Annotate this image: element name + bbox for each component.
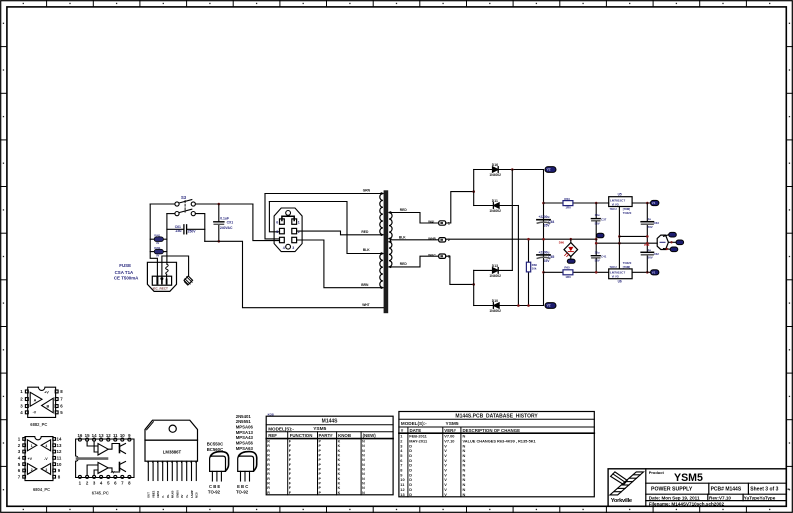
net label +V <box>545 167 556 173</box>
capacitor C61 <box>167 228 183 230</box>
transformer secondary winding 1 <box>389 213 392 239</box>
svg-text:78CU: 78CU <box>610 207 617 211</box>
svg-text:N: N <box>362 468 365 472</box>
svg-text:R: R <box>267 477 270 481</box>
svg-text:R: R <box>267 449 270 453</box>
wire GRN to selector pin 4 <box>265 194 279 239</box>
package 6804_PC <box>23 437 56 481</box>
svg-text:K: K <box>338 440 341 444</box>
svg-text:U5: U5 <box>618 193 622 197</box>
svg-text:250V: 250V <box>188 229 197 233</box>
svg-text:[79M]: [79M] <box>623 265 630 269</box>
svg-text:N: N <box>362 454 365 458</box>
junction <box>542 202 545 205</box>
wire top to BLK feed <box>269 202 380 254</box>
svg-text:WAC: WAC <box>428 253 436 257</box>
net label out3 <box>670 247 678 252</box>
wire D16 row <box>474 169 544 171</box>
wire connector leads <box>664 235 669 237</box>
svg-text:V2: V2 <box>547 168 551 172</box>
svg-text:YSM5: YSM5 <box>313 426 326 432</box>
svg-text:12: 12 <box>57 449 62 454</box>
svg-text:+V: +V <box>44 391 49 395</box>
junction <box>595 202 598 205</box>
svg-text:16: 16 <box>77 433 82 438</box>
svg-text:C41: C41 <box>601 255 607 259</box>
svg-text:R: R <box>267 440 270 444</box>
svg-text:DATE: DATE <box>410 428 422 433</box>
svg-text:Filename: M144SV710sch.sch2002: Filename: M144SV710sch.sch2002 <box>649 502 725 507</box>
svg-text:K: K <box>338 444 341 448</box>
varistor RV61 <box>150 238 155 240</box>
svg-text:LM3886T: LM3886T <box>163 449 182 454</box>
svg-text:U6: U6 <box>618 279 622 283</box>
connector W6 pin 1 <box>439 221 446 225</box>
net label -15V <box>651 270 659 275</box>
wire N down to IEC <box>166 214 168 265</box>
svg-text:R: R <box>267 482 270 486</box>
svg-text:Sheet 3 of 3: Sheet 3 of 3 <box>750 486 778 492</box>
diode D13 <box>492 268 498 274</box>
svg-text:Rev:V7.10: Rev:V7.10 <box>709 496 731 501</box>
svg-text:N: N <box>362 491 365 495</box>
svg-text:1u: 1u <box>648 217 652 221</box>
svg-text:CE T500mA: CE T500mA <box>114 275 139 280</box>
wire bridge cross vertical 2 <box>517 206 519 306</box>
svg-text:TO-92: TO-92 <box>236 490 249 495</box>
svg-text:N: N <box>362 449 365 453</box>
earth wire <box>162 256 189 278</box>
svg-text:N: N <box>362 472 365 476</box>
package 6745_PC <box>76 438 134 478</box>
svg-text:K: K <box>338 477 341 481</box>
svg-text:R65: R65 <box>564 266 570 270</box>
svg-text:9V: 9V <box>156 242 159 245</box>
svg-text:LM7815CT: LM7815CT <box>610 198 625 202</box>
switch S3 <box>175 200 196 216</box>
wire pin3 to bridge <box>446 256 474 284</box>
svg-text:R: R <box>267 486 270 490</box>
svg-text:LM7915CT: LM7915CT <box>610 271 625 275</box>
svg-text:R: R <box>267 472 270 476</box>
svg-text:YSM5: YSM5 <box>446 421 459 427</box>
svg-text:3: 3 <box>45 468 47 472</box>
svg-text:4: 4 <box>45 444 47 448</box>
svg-text:VI VO: VI VO <box>612 203 619 207</box>
svg-text:K: K <box>338 458 341 462</box>
wire L from IEC to switch <box>150 203 175 205</box>
net label 0V <box>597 233 604 238</box>
transformer primary winding 1 <box>380 194 383 235</box>
Yorkville logo <box>610 472 644 495</box>
svg-text:TO220: TO220 <box>623 211 632 215</box>
svg-text:WHB: WHB <box>428 237 436 241</box>
svg-text:C37: C37 <box>601 217 607 221</box>
svg-text:R: R <box>267 491 270 495</box>
svg-text:V-: V- <box>161 495 165 498</box>
svg-text:R: R <box>267 444 270 448</box>
wire D10 row <box>474 305 544 307</box>
svg-text:K: K <box>338 449 341 453</box>
svg-text:D13: D13 <box>492 264 498 268</box>
junction <box>472 190 475 193</box>
package TO-92 2N5401 group <box>236 414 254 451</box>
svg-text:1N4002: 1N4002 <box>489 309 501 313</box>
svg-text:PCB# M144S: PCB# M144S <box>711 486 742 492</box>
package 6882_PC <box>25 387 58 417</box>
svg-text:B: B <box>47 405 50 409</box>
wire U6 output <box>632 271 650 273</box>
svg-text:1N4002: 1N4002 <box>489 274 501 278</box>
net label -V <box>545 303 556 309</box>
svg-text:FUSE: FUSE <box>119 263 131 268</box>
svg-text:MU60: MU60 <box>171 490 175 498</box>
svg-text:MPSA06: MPSA06 <box>236 424 254 429</box>
svg-text:.15u: .15u <box>175 229 182 233</box>
svg-text:DESCRIPTION OF CHANGE: DESCRIPTION OF CHANGE <box>463 428 521 433</box>
svg-text:RV62: RV62 <box>154 247 161 250</box>
svg-text:TO220: TO220 <box>623 261 632 265</box>
net label +15V <box>651 200 659 205</box>
transformer primary winding 2 <box>380 254 383 288</box>
svg-text:BLK: BLK <box>399 235 406 239</box>
svg-text:35V: 35V <box>544 259 551 263</box>
svg-text:(NEW): (NEW) <box>363 433 377 438</box>
svg-text:9V: 9V <box>180 494 184 498</box>
package LM3886T <box>145 420 198 461</box>
wire bridge left verticals <box>473 170 475 206</box>
svg-text:D11: D11 <box>492 199 498 203</box>
svg-text:2: 2 <box>31 468 33 472</box>
svg-text:N: N <box>362 444 365 448</box>
wire switch bottom pole right <box>195 214 204 242</box>
svg-text:240VAC: 240VAC <box>220 226 233 230</box>
LED D60 <box>570 238 573 241</box>
svg-text:-V: -V <box>33 411 37 415</box>
junction <box>511 168 514 171</box>
svg-text:1R0: 1R0 <box>565 206 571 210</box>
diode D11 <box>493 203 499 209</box>
svg-text:N: N <box>362 440 365 444</box>
svg-text:CB50: CB50 <box>156 490 160 498</box>
svg-text:1N4002: 1N4002 <box>489 209 501 213</box>
svg-text:MPSA56: MPSA56 <box>236 440 254 445</box>
wire U5 output <box>632 202 650 204</box>
wire WHT <box>205 241 386 307</box>
svg-text:-V: -V <box>44 457 48 461</box>
svg-text:N: N <box>463 492 466 497</box>
svg-text:D: D <box>409 492 412 497</box>
svg-text:S3: S3 <box>181 195 187 200</box>
svg-text:D60: D60 <box>559 241 565 245</box>
capacitor C41 <box>595 239 597 255</box>
svg-text:GND0: GND0 <box>175 490 179 498</box>
svg-text:PART#: PART# <box>319 433 334 438</box>
svg-text:K: K <box>338 491 341 495</box>
svg-text:POWER SUPPLY: POWER SUPPLY <box>651 486 693 492</box>
diode D10 <box>493 303 499 309</box>
wire D13 row <box>474 269 513 271</box>
svg-text:WAL: WAL <box>428 220 435 224</box>
svg-text:6804_PC: 6804_PC <box>33 487 50 492</box>
svg-text:79CU: 79CU <box>610 265 617 269</box>
svg-text:12: 12 <box>106 433 111 438</box>
svg-text:NC8: NC8 <box>195 492 199 498</box>
svg-text:MPSA63: MPSA63 <box>236 446 254 451</box>
svg-text:35V: 35V <box>544 224 551 228</box>
title block text <box>649 470 779 507</box>
resistor R66 <box>528 239 530 305</box>
diode D16 <box>492 167 498 173</box>
svg-text:MPSA43: MPSA43 <box>236 435 254 440</box>
svg-text:RV61: RV61 <box>154 235 161 238</box>
svg-text:10u: 10u <box>595 250 600 254</box>
svg-text:3: 3 <box>292 246 294 250</box>
svg-text:YSM5: YSM5 <box>674 472 703 484</box>
svg-text:TO-92: TO-92 <box>208 490 221 495</box>
svg-text:2N5551: 2N5551 <box>236 419 252 424</box>
regulator U5 LM7815CT <box>609 197 632 207</box>
ground symbol <box>184 276 193 285</box>
svg-text:K: K <box>338 454 341 458</box>
svg-text:R: R <box>267 458 270 462</box>
svg-text:13: 13 <box>57 443 62 448</box>
junction <box>472 283 475 286</box>
svg-text:1u: 1u <box>648 248 652 252</box>
svg-text:V+: V+ <box>185 494 189 498</box>
svg-text:R63: R63 <box>564 197 570 201</box>
svg-text:+V: +V <box>28 457 33 461</box>
svg-text:BLK: BLK <box>363 248 370 252</box>
svg-text:10u: 10u <box>595 213 600 217</box>
svg-text:K: K <box>338 486 341 490</box>
wire secondary RED bottom <box>390 256 438 267</box>
svg-text:YaTypeYaType: YaTypeYaType <box>744 496 776 501</box>
junction <box>646 202 649 205</box>
svg-text:RED: RED <box>400 208 408 212</box>
capacitor C63 <box>641 221 653 223</box>
transformer core <box>384 190 389 313</box>
svg-text:RED: RED <box>361 230 369 234</box>
svg-text:6882_PC: 6882_PC <box>30 422 47 427</box>
svg-text:N: N <box>362 463 365 467</box>
svg-text:15: 15 <box>85 433 90 438</box>
svg-text:10: 10 <box>57 462 62 467</box>
svg-text:WHT: WHT <box>362 303 370 307</box>
wire secondary RED top <box>390 213 438 224</box>
net label LED <box>567 259 575 263</box>
svg-text:E B C: E B C <box>237 484 248 489</box>
svg-text:Product: Product <box>649 470 665 475</box>
svg-text:1: 1 <box>31 444 33 448</box>
wire -rail to U6 <box>544 271 609 273</box>
svg-text:1N4002: 1N4002 <box>489 173 501 177</box>
svg-text:M144S: M144S <box>322 419 339 425</box>
svg-text:IEC_RECT: IEC_RECT <box>153 287 168 291</box>
svg-text:MODEL(S):-: MODEL(S):- <box>401 421 427 426</box>
svg-text:V1: V1 <box>652 201 656 205</box>
wire regulator ground link <box>618 207 620 269</box>
junction <box>218 240 221 243</box>
svg-text:+2200u: +2200u <box>539 215 550 219</box>
svg-text:OUT: OUT <box>147 492 151 498</box>
net label out2 <box>676 240 684 245</box>
svg-text:Date: Mon Sep 19, 2011: Date: Mon Sep 19, 2011 <box>649 496 700 501</box>
svg-text:10k: 10k <box>532 266 537 270</box>
svg-text:D16: D16 <box>492 163 498 167</box>
wire +rail to U5 <box>544 202 609 204</box>
wire switch bottom pole left <box>167 213 175 215</box>
svg-text:A: A <box>34 399 37 403</box>
svg-text:C63: C63 <box>654 221 660 225</box>
svg-text:D10: D10 <box>492 299 498 303</box>
title block <box>608 469 786 506</box>
svg-text:KNOB: KNOB <box>338 433 351 438</box>
svg-text:5: 5 <box>276 230 278 234</box>
wire switch top pole output <box>195 203 253 205</box>
junction <box>595 238 598 241</box>
svg-text:2N5401: 2N5401 <box>236 414 252 419</box>
svg-text:V: V <box>444 492 447 497</box>
svg-text:CX1: CX1 <box>227 221 234 225</box>
junction <box>218 203 221 206</box>
wire secondary BLK center <box>389 239 391 242</box>
svg-text:Yorkville: Yorkville <box>611 498 633 504</box>
capacitor C64 <box>537 219 550 221</box>
wire mid rail 0V <box>446 238 597 240</box>
wire D11 row <box>474 205 519 207</box>
svg-text:50V: 50V <box>595 222 600 226</box>
svg-text:R: R <box>267 468 270 472</box>
svg-text:GRN: GRN <box>363 189 371 193</box>
svg-text:6: 6 <box>276 220 278 224</box>
wire selector pin 3 to BRN <box>297 240 381 288</box>
svg-text:50V: 50V <box>595 259 600 263</box>
svg-text:P60: P60 <box>644 243 649 247</box>
capacitor CX1 <box>218 204 220 221</box>
connector W6 pin 3 <box>439 254 446 258</box>
selector jumper 6-1 <box>282 216 294 220</box>
capacitor C37 <box>595 203 597 218</box>
svg-text:+2200u: +2200u <box>539 250 550 254</box>
svg-text:M144S.PCB_DATABASE_HISTORY: M144S.PCB_DATABASE_HISTORY <box>455 413 538 419</box>
svg-text:N: N <box>362 482 365 486</box>
svg-text:R: R <box>267 454 270 458</box>
svg-text:VI VO: VI VO <box>612 275 619 279</box>
transformer terminal dots <box>380 192 382 194</box>
svg-text:1R0: 1R0 <box>565 275 571 279</box>
wire bridge cross vertical 1 <box>511 170 513 271</box>
svg-text:1: 1 <box>298 220 300 224</box>
junction <box>595 271 598 274</box>
svg-text:VBE2: VBE2 <box>151 490 155 498</box>
svg-text:14: 14 <box>57 437 62 442</box>
capacitor C62 <box>641 251 653 253</box>
transformer secondary winding 2 <box>389 242 392 267</box>
svg-text:N: N <box>362 477 365 481</box>
svg-text:K: K <box>338 482 341 486</box>
svg-text:VALUE CHANGES R63-4K99 , R135-: VALUE CHANGES R63-4K99 , R135-5K1 <box>463 439 537 444</box>
output connector P60 <box>657 235 668 249</box>
wire 0V stub upper <box>619 235 647 237</box>
wire selector pin 2 to RED <box>297 231 381 235</box>
svg-text:BC550C: BC550C <box>207 442 223 447</box>
svg-text:6745_PC: 6745_PC <box>92 491 109 496</box>
svg-text:RED: RED <box>400 262 408 266</box>
svg-text:11: 11 <box>57 456 62 461</box>
svg-text:N: N <box>362 458 365 462</box>
voltage selector connector <box>274 208 302 252</box>
fuse squiggle in IEC <box>166 264 169 274</box>
svg-text:50V: 50V <box>648 225 653 229</box>
regulator U6 LM7915CT <box>609 269 632 279</box>
net label out1 <box>669 232 677 237</box>
junction <box>517 304 520 307</box>
table M144S.PCB_DATABASE_HISTORY <box>399 412 594 497</box>
wire GRN top <box>265 193 381 195</box>
wire selector pin 5 <box>269 202 279 232</box>
svg-text:50V: 50V <box>648 256 653 260</box>
svg-text:13: 13 <box>99 433 104 438</box>
capacitor C65 <box>537 254 550 256</box>
svg-text:BRN: BRN <box>361 283 369 287</box>
svg-text:4: 4 <box>283 246 285 250</box>
resistor R65 <box>563 270 573 275</box>
svg-text:FUNCTION: FUNCTION <box>290 433 313 438</box>
svg-text:11: 11 <box>113 433 118 438</box>
svg-text:MODEL(S):-: MODEL(S):- <box>268 427 294 432</box>
svg-text:V2: V2 <box>547 304 551 308</box>
svg-text:2: 2 <box>298 230 300 234</box>
wire main positive rail <box>543 170 545 306</box>
svg-text:MPSA13: MPSA13 <box>236 430 254 435</box>
svg-text:10: 10 <box>120 433 125 438</box>
svg-text:CSA T1A: CSA T1A <box>115 270 134 275</box>
resistor R63 <box>563 201 573 206</box>
svg-text:C B E: C B E <box>209 484 220 489</box>
svg-text:14: 14 <box>92 433 97 438</box>
svg-text:R: R <box>267 463 270 467</box>
svg-text:N: N <box>362 486 365 490</box>
svg-text:K: K <box>338 472 341 476</box>
svg-text:K: K <box>338 468 341 472</box>
svg-text:IN-: IN- <box>166 494 170 498</box>
connector W6 pin 2 <box>439 238 446 242</box>
wire output rail vertical <box>646 203 648 221</box>
svg-text:K: K <box>338 463 341 467</box>
svg-text:9V: 9V <box>156 254 159 257</box>
svg-text:1AMP: 1AMP <box>190 490 194 498</box>
svg-text:REF: REF <box>268 433 277 438</box>
svg-text:V1: V1 <box>652 270 656 274</box>
svg-text:C62: C62 <box>654 252 660 256</box>
junction <box>646 271 649 274</box>
wire pin1 to bridge <box>446 192 474 223</box>
wire connector mid rail <box>596 242 657 244</box>
varistor RV62 <box>150 251 155 253</box>
svg-text:VER#: VER# <box>444 428 456 433</box>
IEC inlet IEC_RECT <box>147 262 176 291</box>
wire to selector pin 4 <box>253 204 279 241</box>
